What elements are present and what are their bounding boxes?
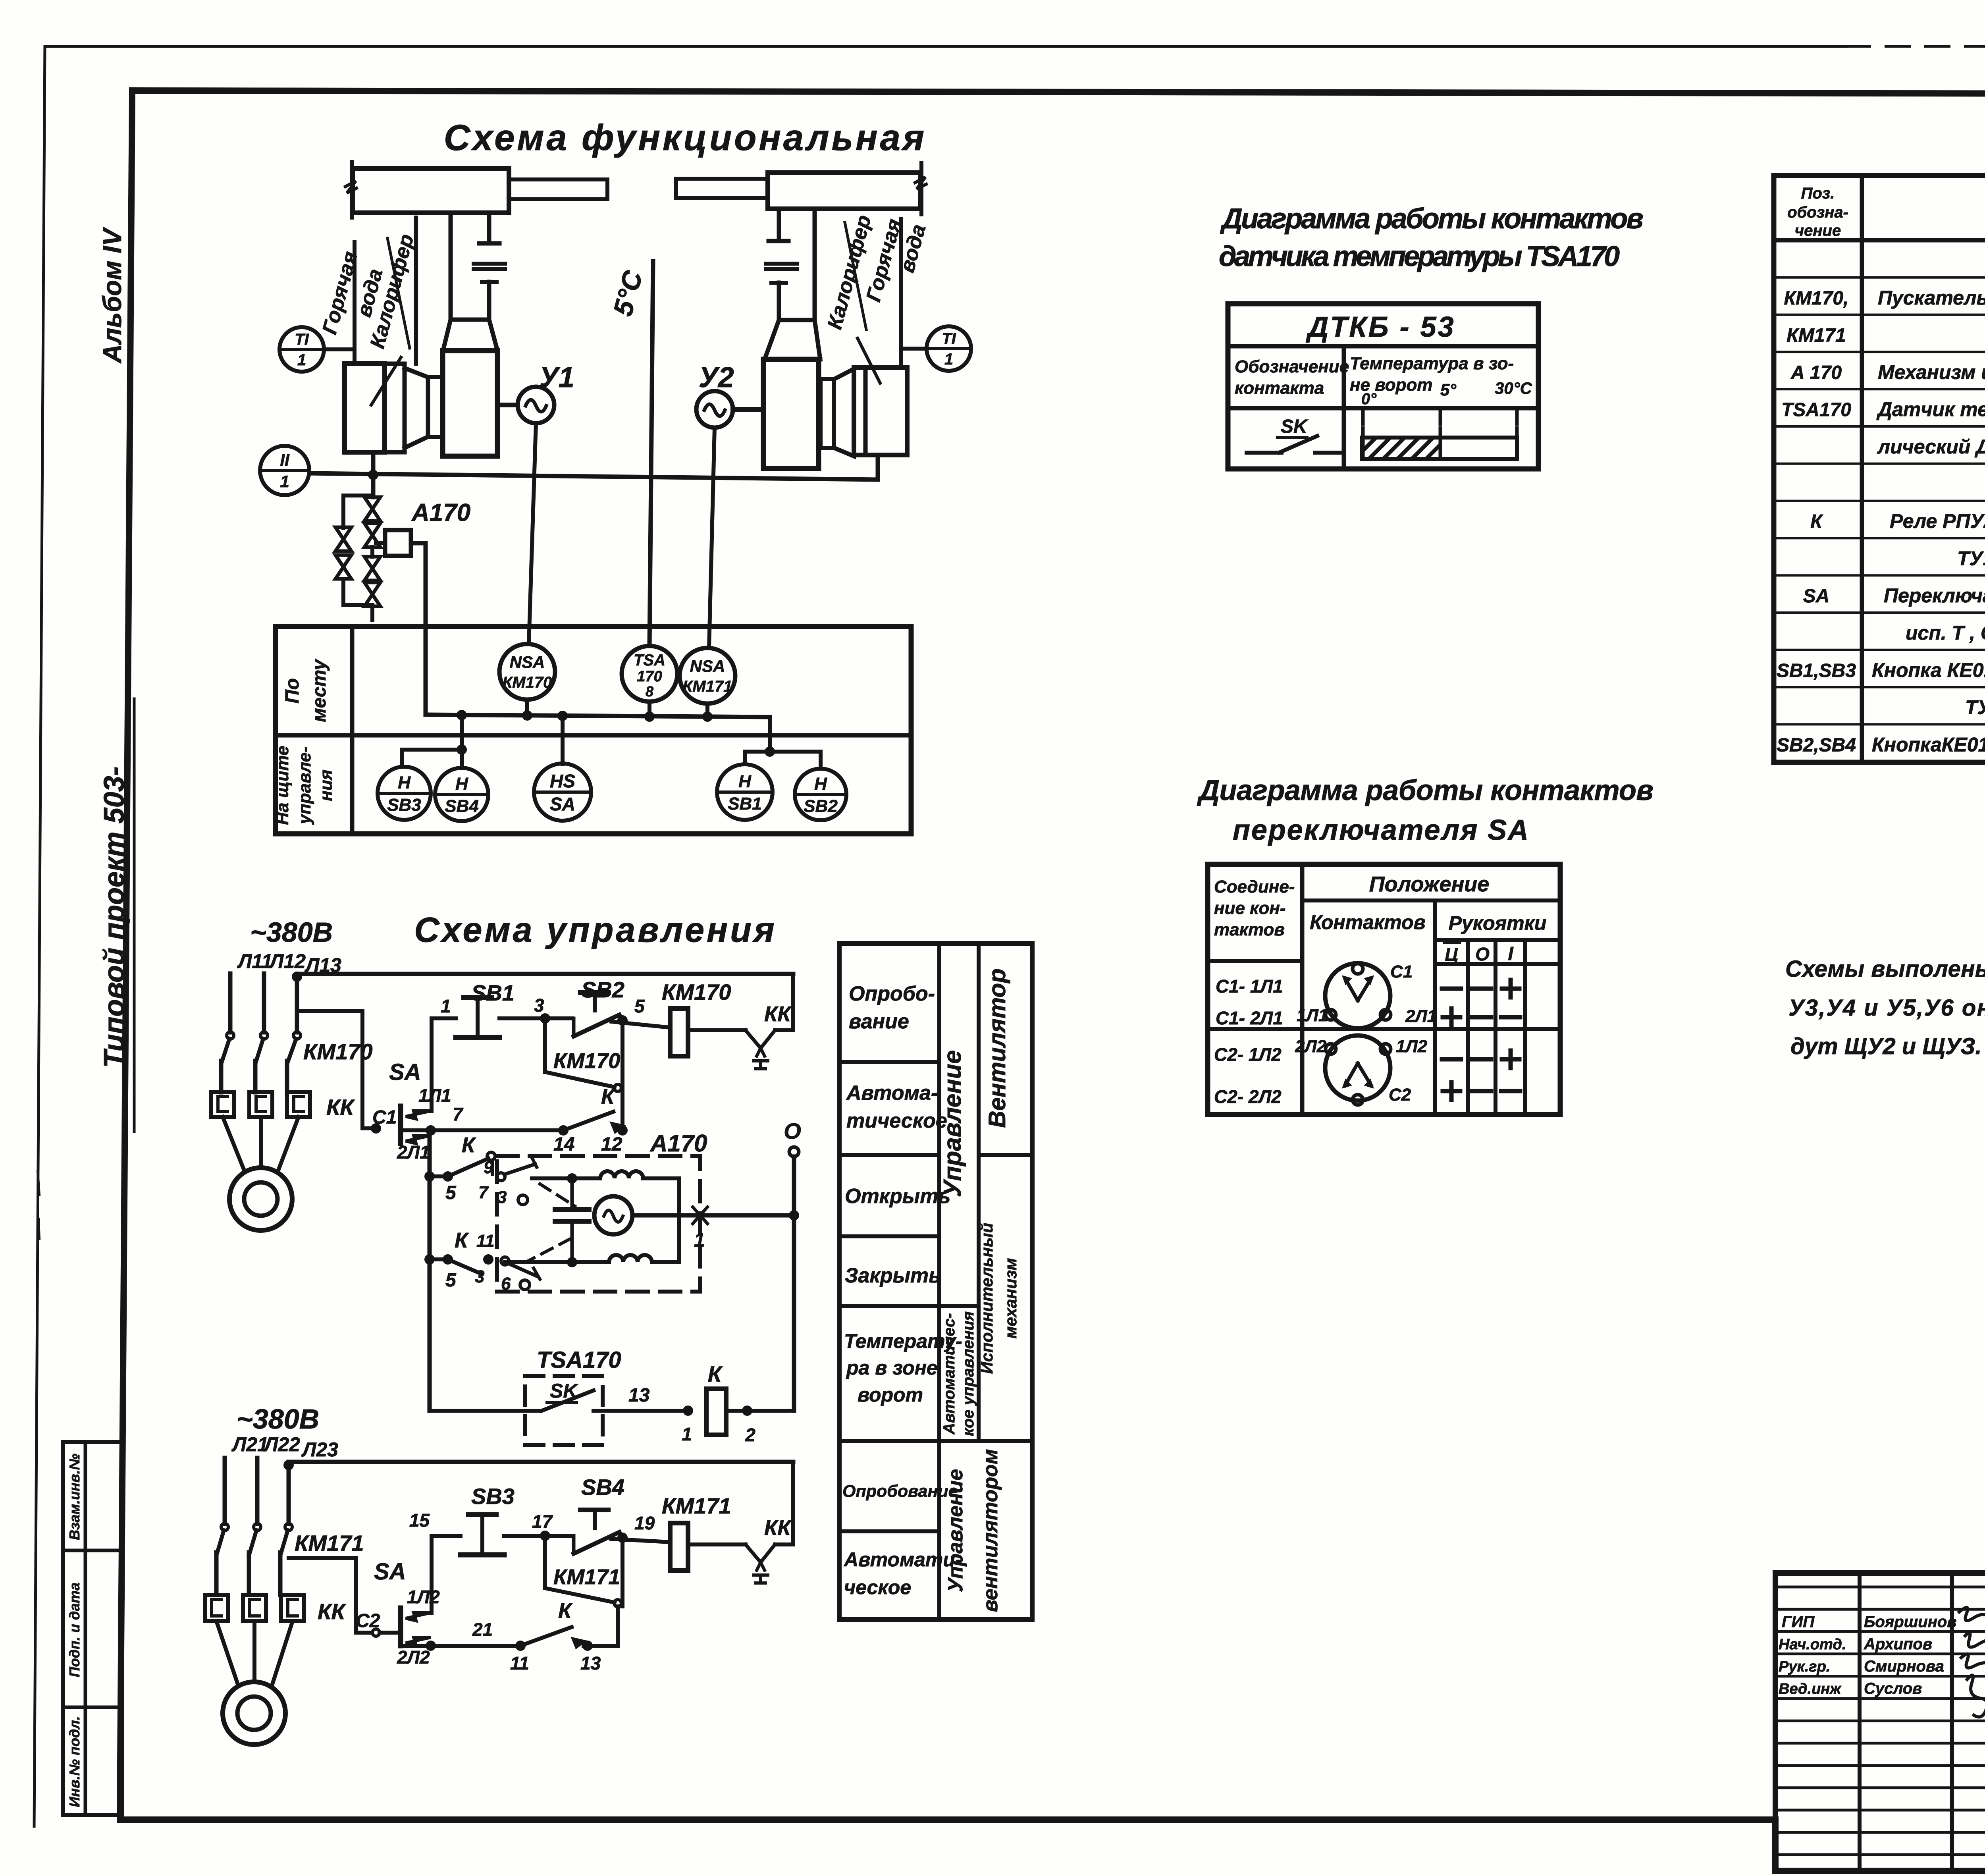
phase wire L23 (287, 1465, 291, 1524)
svg-text:К: К (708, 1361, 723, 1386)
wire TI/1 to pipe (324, 347, 355, 351)
svg-text:15: 15 (409, 1510, 430, 1531)
mech link upper (540, 1184, 575, 1206)
svg-text:Архипов: Архипов (1864, 1635, 1932, 1653)
svg-text:3: 3 (497, 1188, 507, 1207)
instrument TI/1 left (279, 327, 324, 372)
thermal relay KK heaters group1 (211, 1092, 234, 1117)
svg-text:ДТКБ - 53: ДТКБ - 53 (1305, 311, 1455, 343)
signature grid (1858, 1573, 1862, 1871)
heater (kalorifer) left (443, 351, 497, 456)
wire to SK contact (430, 1409, 540, 1413)
wire 2M down to TSA rung (428, 1130, 432, 1411)
hot water pipe right (899, 219, 903, 368)
SA state marks (1442, 987, 1461, 991)
hot water pipe left B (414, 218, 418, 364)
wire winding right side (677, 1178, 681, 1262)
svg-text:К: К (558, 1599, 573, 1623)
svg-text:Типовой проект 503-: Типовой проект 503- (98, 766, 130, 1068)
svg-text:КМ171: КМ171 (662, 1493, 731, 1518)
air duct right (unit U2) (768, 173, 921, 209)
panel boundary box (276, 627, 911, 834)
svg-text:2Л2: 2Л2 (1295, 1037, 1327, 1056)
svg-text:1: 1 (280, 472, 289, 491)
svg-text:Схема функциональная: Схема функциональная (444, 118, 927, 158)
svg-text:TI: TI (295, 331, 309, 348)
svg-text:21: 21 (472, 1619, 493, 1640)
wire node5 to coil KM170 (611, 1022, 670, 1028)
branch to SB1 SB2 lamps (768, 717, 772, 752)
svg-text:Диаграмма работы контактов: Диаграмма работы контактов (1197, 775, 1654, 806)
sensor box TSA170 (dashed) (525, 1376, 603, 1445)
svg-text:Автоматичес-: Автоматичес- (940, 1313, 958, 1434)
pipe to actuator valve (370, 547, 374, 557)
wire rung1 right corner (775, 974, 793, 1030)
svg-text:Альбом IV: Альбом IV (97, 227, 127, 364)
electric motor U1 (518, 387, 554, 423)
wires KK to motor group2 (216, 1621, 238, 1685)
svg-text:SA: SA (550, 794, 575, 814)
svg-text:С2: С2 (1389, 1085, 1411, 1105)
rung 2L1 with K contact (auto) (401, 1128, 563, 1132)
svg-text:SA: SA (374, 1559, 406, 1585)
svg-text:К: К (1810, 511, 1823, 532)
wire aux to node5 (621, 1022, 624, 1091)
svg-text:SK: SK (1281, 416, 1309, 437)
svg-text:Контактов: Контактов (1310, 911, 1426, 933)
damper stem right (813, 209, 817, 320)
phase wire L12 (262, 974, 266, 1032)
svg-text:Исполнительный: Исполнительный (977, 1223, 996, 1374)
svg-text:Л12: Л12 (269, 950, 306, 972)
sensor TSA 170-8 (622, 646, 677, 702)
svg-text:SB2: SB2 (581, 977, 624, 1002)
capacitor in A170 (570, 1178, 574, 1209)
svg-text:кое управления: кое управления (960, 1311, 977, 1436)
svg-text:Н: Н (455, 774, 468, 794)
svg-text:NSA: NSA (690, 657, 725, 675)
svg-text:ТУ16-526 407-79: ТУ16-526 407-79 (1965, 696, 1985, 719)
svg-text:19: 19 (634, 1513, 655, 1533)
svg-text:Реле РПУ2-36402343, ~220В, 50: Реле РПУ2-36402343, ~220В, 50Гц (1890, 510, 1985, 532)
svg-text:11: 11 (476, 1231, 495, 1251)
wire A170 to panel (411, 543, 426, 715)
svg-text:Подп. и дата: Подп. и дата (66, 1583, 83, 1677)
air duct left (unit U1) (353, 168, 509, 213)
svg-text:1Л1: 1Л1 (418, 1085, 451, 1106)
svg-text:Механизм исполнительный: Механизм исполнительный (1878, 361, 1985, 383)
svg-text:У2: У2 (699, 362, 734, 393)
wire motor output pin 1 (632, 1213, 792, 1218)
button lamp H SB1 (717, 764, 773, 820)
contact K (rung 7) (558, 1125, 569, 1136)
svg-text:КМ171: КМ171 (295, 1531, 364, 1556)
svg-text:1: 1 (682, 1424, 692, 1444)
svg-text:К: К (462, 1133, 476, 1157)
svg-text:TSA: TSA (634, 652, 665, 669)
cam circle C2 (1325, 1035, 1390, 1101)
duct flange right (766, 262, 797, 266)
damper left (482, 280, 497, 284)
svg-text:13: 13 (628, 1385, 650, 1406)
svg-text:5°: 5° (1440, 380, 1457, 399)
svg-text:Л21: Л21 (231, 1433, 268, 1456)
svg-text:SB2,SB4: SB2,SB4 (1777, 735, 1856, 756)
svg-text:Смирнова: Смирнова (1864, 1658, 1944, 1675)
actuator A170 (functional) (385, 530, 411, 556)
svg-text:Схемы выполены для воздушно: Схемы выполены для воздушно- тепловых за… (1785, 956, 1985, 982)
motor M group2 (223, 1682, 285, 1745)
DTKB-53 table frame (1228, 304, 1538, 469)
svg-text:Н: Н (738, 772, 752, 791)
svg-text:КК: КК (318, 1599, 346, 1624)
condensate return line (long horizontal) (310, 473, 878, 480)
svg-text:Л23: Л23 (301, 1438, 338, 1461)
svg-text:исп. Т , ОСТ16.0.526.001-77: исп. Т , ОСТ16.0.526.001-77 (1906, 622, 1985, 644)
bypass valve 1 (335, 527, 351, 551)
svg-text:3: 3 (534, 995, 544, 1016)
svg-text:КМ171: КМ171 (1786, 325, 1846, 346)
svg-text:КК: КК (764, 1002, 792, 1026)
svg-text:КМ171: КМ171 (683, 678, 732, 695)
tap wire to control circuit C2 (289, 1558, 371, 1633)
winding upper (532, 1171, 679, 1178)
rung 2L2 with K contact (401, 1644, 520, 1648)
svg-text:С2- 2Л2: С2- 2Л2 (1214, 1086, 1282, 1107)
motor M group1 (229, 1168, 292, 1230)
SA table frame (1208, 864, 1560, 1114)
svg-text:5: 5 (634, 996, 645, 1016)
svg-text:Вентилятор: Вентилятор (984, 968, 1010, 1128)
lamp NSA KM171 (680, 648, 735, 704)
svg-text:Температура в зо-: Температура в зо- (1350, 354, 1514, 373)
svg-text:тическое: тическое (846, 1109, 947, 1132)
wire U1 to panel lamp NSA KM170 (529, 423, 536, 644)
svg-text:30°С: 30°С (1495, 379, 1532, 397)
svg-text:Пускатель магнитный: Пускатель магнитный (1878, 287, 1985, 309)
svg-text:Поз.: Поз. (1801, 185, 1835, 202)
svg-text:13: 13 (580, 1653, 601, 1674)
svg-text:КнопкаКЕ011У3,исп.4, ТУ16-528.: КнопкаКЕ011У3,исп.4, ТУ16-528.407-79 (1872, 733, 1985, 756)
svg-text:Взам.инв.№: Взам.инв.№ (66, 1454, 83, 1540)
svg-text:Кнопка КЕ011У3,исп.5, толкател: Кнопка КЕ011У3,исп.5, толкатель красный (1872, 659, 1985, 681)
instrument II/1 left (260, 446, 309, 495)
svg-text:датчика температуры TSA170: датчика температуры TSA170 (1219, 241, 1620, 272)
wire to aux corner group2 (616, 1606, 620, 1646)
svg-text:Инв.№ подл.: Инв.№ подл. (66, 1716, 83, 1807)
wire U2 to panel lamp NSA KM171 (709, 428, 715, 648)
svg-text:SB4: SB4 (445, 796, 479, 816)
svg-text:Н: Н (398, 773, 411, 792)
duct outlet right (676, 179, 768, 198)
aux contact KM170 self hold (543, 1018, 547, 1072)
temperature setpoint line 5C (649, 261, 653, 646)
svg-text:К: К (455, 1228, 469, 1252)
branch to SA switch (561, 716, 565, 764)
svg-text:лический ДТКБ-53, ТУ25.02.888-: лический ДТКБ-53, ТУ25.02.888-75 (1877, 436, 1985, 458)
svg-text:ТУ16-523.331-78: ТУ16-523.331-78 (1957, 547, 1985, 569)
coil KM170 (670, 1008, 688, 1056)
svg-text:контакта: контакта (1235, 378, 1324, 398)
svg-text:С1: С1 (372, 1107, 397, 1128)
svg-text:Обозначение: Обозначение (1235, 357, 1349, 376)
tap wire to control circuit C1 (297, 1011, 376, 1128)
svg-text:У1: У1 (539, 362, 574, 393)
svg-text:14: 14 (553, 1134, 574, 1155)
pipe from fan down to valves (371, 452, 376, 497)
svg-text:ворот: ворот (858, 1384, 923, 1406)
button lamp H SB3 (378, 767, 431, 820)
wire rung2 right corner (775, 1462, 793, 1544)
coil KM171 (670, 1523, 688, 1571)
bypass valve 2 (335, 555, 351, 579)
svg-text:управле-: управле- (295, 746, 314, 825)
svg-text:Опробо-: Опробо- (849, 982, 935, 1005)
bypass pipe (343, 496, 372, 528)
valve 3 main (with actuator A170) (364, 557, 380, 580)
svg-text:КК: КК (326, 1095, 355, 1120)
svg-text:170: 170 (637, 668, 662, 685)
svg-text:ческое: ческое (844, 1576, 911, 1598)
svg-text:Закрыть: Закрыть (845, 1264, 941, 1287)
actuator motor (sine) (594, 1196, 632, 1234)
svg-text:1: 1 (441, 996, 451, 1016)
svg-text:тактов: тактов (1214, 920, 1285, 939)
svg-text:2Л1: 2Л1 (397, 1142, 430, 1163)
mech link lower (528, 1239, 570, 1261)
button lamp H SB2 (795, 769, 846, 820)
svg-text:А170: А170 (411, 499, 470, 526)
svg-text:С2- 1Л2: С2- 1Л2 (1214, 1044, 1282, 1065)
limit switch upper inside A170 (491, 1160, 494, 1174)
wire node3 (499, 1016, 572, 1020)
svg-text:I: I (1508, 943, 1514, 964)
svg-text:А 170: А 170 (1790, 362, 1842, 383)
svg-text:SB4: SB4 (581, 1475, 624, 1500)
svg-text:По: По (282, 678, 303, 704)
limit switch lower inside A170 (501, 1257, 509, 1265)
relay coil K (706, 1389, 726, 1435)
svg-text:Н: Н (814, 774, 827, 794)
svg-text:II: II (280, 451, 290, 469)
svg-text:Управление: Управление (939, 1050, 966, 1197)
svg-text:3: 3 (475, 1267, 484, 1286)
svg-text:TSA170: TSA170 (537, 1347, 621, 1373)
svg-text:А170: А170 (649, 1130, 707, 1157)
temperature band bar (1361, 428, 1365, 459)
svg-text:17: 17 (532, 1511, 553, 1532)
valve 1 main (364, 497, 380, 521)
wire 1L1 up to rung1 (432, 1018, 456, 1111)
control bus from L23 (289, 1460, 793, 1464)
svg-text:TSA170: TSA170 (1781, 399, 1851, 420)
left bottom stamp table (63, 1442, 122, 1815)
svg-text:Опробование: Опробование (842, 1482, 958, 1501)
svg-text:1: 1 (297, 351, 306, 369)
svg-text:5: 5 (445, 1270, 457, 1291)
wire O line (792, 1157, 796, 1411)
duct outlet left (509, 179, 607, 199)
heater (kalorifer) right (763, 359, 819, 469)
svg-text:8: 8 (646, 683, 653, 700)
svg-text:SB3: SB3 (387, 795, 421, 815)
svg-text:ГИП: ГИП (1782, 1613, 1815, 1631)
svg-text:обозна-: обозна- (1787, 204, 1848, 221)
svg-text:чение: чение (1795, 222, 1841, 239)
svg-text:NSA: NSA (510, 653, 545, 671)
svg-text:С1: С1 (1390, 962, 1413, 981)
svg-text:5: 5 (445, 1182, 457, 1203)
svg-text:SA: SA (1803, 586, 1830, 607)
transition cone right (765, 320, 779, 359)
wire heater to motor U2 (733, 407, 763, 412)
contact K (rung 21) (515, 1641, 526, 1651)
svg-text:1Л2: 1Л2 (1396, 1037, 1428, 1056)
svg-text:Соедине-: Соедине- (1214, 877, 1295, 897)
thermal relay KK heaters group2 (205, 1595, 228, 1621)
valve 4 main (364, 582, 380, 606)
damper right (771, 281, 786, 285)
svg-text:7: 7 (453, 1104, 464, 1124)
branch to SB3 SB4 lamps (460, 715, 464, 750)
phase wire L22 (255, 1458, 260, 1524)
wire K contact to aux corner (621, 1091, 624, 1130)
panel signal bus (426, 715, 770, 717)
svg-text:Рук.гр.: Рук.гр. (1779, 1658, 1830, 1675)
svg-text:Автома-: Автома- (846, 1082, 938, 1105)
wire 1L2 up to rung2 (432, 1536, 461, 1613)
svg-text:SB2: SB2 (804, 796, 838, 816)
svg-text:На щите: На щите (273, 746, 292, 825)
actuator block A170 (dashed) (497, 1156, 700, 1292)
svg-text:Бояршинов: Бояршинов (1864, 1613, 1957, 1631)
svg-text:11: 11 (510, 1653, 529, 1674)
svg-text:SA: SA (389, 1059, 421, 1085)
svg-text:месту: месту (309, 659, 330, 722)
svg-text:SB1: SB1 (728, 794, 762, 814)
wire heater to motor U1 (497, 403, 518, 407)
svg-text:2: 2 (745, 1425, 755, 1445)
scale ticks (1361, 408, 1365, 424)
fan housing left (345, 364, 385, 452)
damper stem left (449, 213, 453, 320)
svg-text:Диаграмма работы контактов: Диаграмма работы контактов (1220, 203, 1644, 235)
svg-text:Датчик температуры камерный би: Датчик температуры камерный биметал- (1876, 398, 1985, 420)
svg-text:Положение: Положение (1369, 872, 1489, 896)
svg-text:Открыть: Открыть (845, 1185, 950, 1208)
svg-text:TI: TI (942, 330, 956, 347)
svg-text:SB3: SB3 (471, 1484, 515, 1509)
svg-text:Нач.отд.: Нач.отд. (1779, 1636, 1846, 1653)
svg-text:КМ170: КМ170 (553, 1049, 620, 1073)
fan housing right (821, 379, 834, 448)
svg-text:дут ЩУ2 и ЩУЗ.: дут ЩУ2 и ЩУЗ. (1790, 1033, 1982, 1059)
svg-text:HS: HS (550, 771, 575, 791)
svg-text:Л11: Л11 (237, 950, 272, 972)
phase wire L21 (223, 1458, 227, 1524)
svg-text:SB1,SB3: SB1,SB3 (1777, 660, 1856, 681)
wire coil to KK contact group2 (688, 1542, 746, 1546)
electric motor U2 (696, 391, 733, 428)
svg-text:ния: ния (316, 769, 336, 801)
svg-text:12: 12 (601, 1134, 622, 1155)
svg-text:0°: 0° (1361, 390, 1377, 408)
phase wire L13 (295, 977, 299, 1032)
svg-text:2Л2: 2Л2 (397, 1647, 430, 1668)
svg-text:Рукоятки: Рукоятки (1449, 912, 1547, 934)
cam circle C1 (1325, 963, 1390, 1028)
mode table frame (839, 943, 1032, 1620)
switch HS SA (534, 764, 591, 821)
svg-text:Схема управления: Схема управления (414, 910, 777, 949)
wires KK to motor group1 (223, 1117, 245, 1171)
svg-text:КМ170: КМ170 (503, 674, 552, 691)
svg-text:КМ170,: КМ170, (1784, 288, 1849, 309)
control bus from L13 (297, 972, 793, 976)
svg-text:КК: КК (764, 1516, 792, 1540)
svg-text:1Л1: 1Л1 (1297, 1006, 1328, 1025)
transition cone left (443, 320, 451, 351)
svg-text:~380В: ~380В (237, 1404, 319, 1434)
svg-text:С2: С2 (356, 1610, 380, 1631)
svg-text:Управление: Управление (944, 1469, 967, 1592)
svg-text:7: 7 (478, 1183, 489, 1202)
wire node17 (504, 1534, 572, 1538)
svg-text:1: 1 (944, 351, 953, 368)
svg-text:О: О (784, 1118, 801, 1143)
svg-text:1Л2: 1Л2 (407, 1587, 440, 1607)
svg-text:Вед.инж: Вед.инж (1779, 1681, 1842, 1697)
wire node19 to coil KM171 (611, 1539, 670, 1542)
svg-text:ра в зоне: ра в зоне (846, 1357, 938, 1379)
instrument TI/1 right (927, 326, 971, 371)
duct flange left (474, 262, 505, 266)
parts list table frame (1774, 175, 1985, 762)
wire TI/1 right to pipe (901, 347, 927, 351)
valve 2 main (364, 523, 380, 547)
hot water pipe left A (353, 242, 357, 364)
svg-text:2Л1: 2Л1 (1405, 1006, 1437, 1026)
title block frame (1775, 1573, 1985, 1871)
svg-text:КМ170: КМ170 (662, 979, 731, 1005)
wire coil to KK contact (688, 1028, 746, 1032)
lamp NSA KM170 (499, 644, 555, 700)
svg-text:КМ171: КМ171 (553, 1565, 620, 1589)
svg-text:6: 6 (501, 1274, 511, 1294)
svg-text:О: О (1475, 944, 1490, 964)
svg-text:С1- 2Л1: С1- 2Л1 (1216, 1008, 1283, 1028)
svg-text:Переключатель пакетный ПП2-10/: Переключатель пакетный ПП2-10/Н2У3, (1884, 584, 1985, 607)
svg-text:вание: вание (849, 1010, 909, 1033)
svg-text:~380В: ~380В (250, 917, 333, 948)
contactor KM171 main contacts (221, 1523, 228, 1531)
svg-text:Ц: Ц (1445, 944, 1458, 965)
aux contact KM171 self hold (543, 1536, 547, 1588)
contactor KM170 main contacts (227, 1032, 234, 1039)
svg-text:К: К (601, 1085, 616, 1109)
svg-text:Л22: Л22 (263, 1433, 300, 1456)
wire aux to node19 (621, 1539, 624, 1606)
button lamp H SB4 (435, 768, 488, 821)
winding lower (505, 1255, 679, 1262)
svg-text:С1- 1Л1: С1- 1Л1 (1216, 976, 1283, 997)
svg-text:1: 1 (694, 1229, 705, 1251)
svg-text:механизм: механизм (1001, 1258, 1020, 1338)
svg-text:ние кон-: ние кон- (1214, 898, 1286, 918)
svg-text:Суслов: Суслов (1864, 1680, 1922, 1697)
svg-text:вентилятором: вентилятором (979, 1449, 1002, 1612)
phase wire L11 (228, 974, 233, 1032)
